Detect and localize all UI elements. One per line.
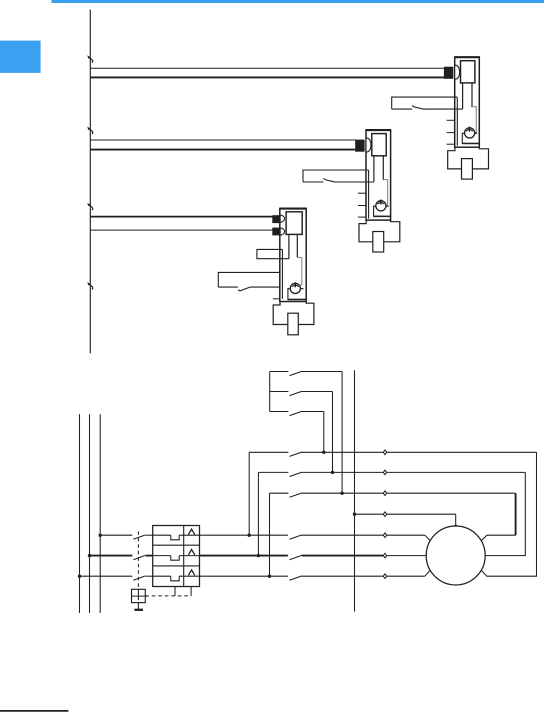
Q1 fuse link channel	[462, 83, 464, 109]
contactor K2 contact 2	[270, 391, 289, 393]
connector diamond row7	[383, 574, 386, 579]
busbar L1 bottom edge wire (heavy)	[90, 76, 445, 78]
Q1 size ticks	[447, 119, 455, 121]
main switch Q0 pole 1	[133, 535, 145, 539]
wire loop row3 to motor V2 (heavy drop)	[515, 493, 517, 535]
tap marker T3 on riser	[88, 204, 93, 208]
Q1 plug-in contact bump	[455, 65, 460, 79]
overload relay F1 divider	[183, 526, 185, 587]
connector diamond row1	[383, 450, 386, 455]
Q1 mounting tab	[462, 159, 473, 180]
Q2 inner side line	[368, 170, 370, 219]
Q2 pocket around handle	[374, 206, 391, 216]
junction feeder V	[88, 554, 91, 557]
junction feeder W	[78, 575, 81, 578]
wire row3 to loop	[302, 492, 516, 494]
wire overload to contactor V	[200, 555, 288, 557]
Q1 fuse link (gray)	[472, 107, 476, 133]
Q1 handle circle	[465, 128, 475, 138]
wire row4 down to motor	[455, 514, 457, 526]
wire K2-3 down	[323, 412, 325, 453]
Q3 mounting tab	[288, 313, 299, 335]
Q2 arm switch lever	[323, 178, 335, 182]
Q3 size tick	[273, 298, 280, 300]
connector diamond row3	[383, 491, 386, 496]
overload heater F1-3	[153, 575, 171, 577]
tap marker T2 on riser	[88, 128, 93, 132]
Q3 fuse link channel	[288, 234, 290, 258]
contactor K1 contact 1	[290, 535, 303, 539]
feeder wire L3 vertical	[99, 414, 101, 613]
junction delta V	[257, 554, 260, 557]
fuse-switch-disconnector Q3	[218, 209, 314, 335]
shunt release F2 box	[132, 589, 146, 602]
wire row5 to motor U1	[302, 534, 425, 536]
Q1 inner side line	[456, 97, 458, 146]
wire delta link V	[257, 472, 259, 555]
Q3 upper bracket	[257, 249, 289, 258]
busbar L2 bottom edge wire (heavy)	[90, 149, 356, 151]
overload trip chevron 3	[188, 570, 194, 575]
Q2 mounting tab	[373, 232, 384, 253]
Q2 fuse carrier	[372, 134, 386, 156]
Q3 arm switch lever	[238, 287, 250, 291]
junction delta U	[248, 534, 251, 537]
connector diamond row4	[383, 512, 386, 517]
connector diamond row5	[383, 533, 386, 538]
Q1 terminal lug	[444, 67, 452, 78]
main switch Q0 pole 2	[133, 555, 145, 559]
contactor K1 contact 2	[290, 555, 303, 559]
Q3 body outline	[280, 209, 306, 302]
connector diamond row6	[383, 553, 386, 558]
junction K2-3	[322, 451, 325, 454]
overload relay F1 housing	[153, 526, 200, 587]
wire delta link U	[248, 452, 250, 535]
overload trip chevron 2	[188, 550, 194, 555]
Q3 operating arm	[218, 272, 280, 287]
Q2 fuse link (gray)	[383, 180, 387, 206]
wire feeder to switch W	[80, 575, 133, 577]
motor M	[426, 526, 485, 585]
contactor K3 contact 2	[258, 471, 288, 473]
contactor K2 contact 1	[270, 371, 289, 373]
busbar riser wire	[89, 10, 91, 354]
wire switch to overload U	[146, 534, 153, 536]
wire K2-1 down	[341, 372, 343, 494]
Q2 plug-in contact bump	[366, 138, 371, 152]
contactor K3 contact 3	[270, 492, 289, 494]
wire overload to contactor W	[200, 575, 288, 577]
star contactor K2 common bus	[269, 372, 271, 412]
Q3 inner side line	[281, 249, 283, 298]
release lead	[137, 603, 139, 609]
contactor K2 contact 3	[270, 411, 289, 413]
chapter tab square (blue)	[0, 41, 41, 73]
wire loop row1 to motor W2	[481, 452, 536, 576]
wire feeder to switch V	[90, 555, 133, 557]
Q3 terminal lug upper	[273, 216, 280, 223]
wire overload to contactor U	[200, 534, 288, 536]
Q3 pedestal base	[273, 302, 314, 325]
page footer rule	[0, 710, 68, 712]
Q3 plug-in contact bumps	[280, 215, 285, 222]
junction motor top	[454, 525, 457, 528]
wire row2 to loop	[302, 471, 525, 473]
overload trip chevron 1	[188, 529, 194, 534]
busbar L2 top edge wire	[90, 139, 356, 141]
junction K2-1	[340, 492, 343, 495]
wire row7 to motor W1	[302, 575, 425, 577]
fuse-switch-disconnector Q1	[392, 57, 489, 179]
Q3 handle circle	[290, 283, 300, 293]
Q3 fuse carrier	[286, 212, 302, 235]
junction row4 / star wire	[353, 513, 356, 516]
wire row1 to loop	[302, 451, 537, 453]
busbar L3 feed wire A (heavy)	[90, 216, 273, 218]
tap marker T1 on riser	[88, 57, 93, 61]
wire switch to overload W	[146, 575, 153, 577]
junction feeder U	[99, 534, 102, 537]
wire loop row2 to motor U2	[485, 472, 525, 555]
Q3 pocket around handle	[288, 289, 306, 300]
Q2 size ticks	[358, 192, 366, 194]
contactor K3 contact 1	[249, 451, 288, 453]
feeder wire L1 vertical	[79, 414, 81, 613]
Q2 handle circle	[376, 201, 386, 211]
wire delta link W	[269, 493, 271, 576]
Q2 body outline	[366, 130, 391, 220]
junction delta W	[268, 575, 271, 578]
Q1 pedestal base	[448, 147, 489, 169]
overload trip linkage stubs	[174, 587, 176, 596]
wire row6 to motor V1	[302, 555, 383, 557]
feeder wire L2 vertical	[89, 414, 91, 613]
Q2 operating arm	[303, 170, 369, 182]
earth bar	[134, 609, 143, 611]
overload heater F1-2	[153, 555, 171, 557]
tap marker T4 on riser	[88, 283, 93, 287]
Q3 terminal lug lower	[273, 228, 280, 235]
wire row4 (motor star point)	[355, 513, 456, 515]
contactor K1 contact 3	[290, 576, 303, 580]
page header rule (blue)	[52, 0, 544, 3]
trip linkage (dashed)	[145, 595, 191, 597]
star point wire (vertical)	[354, 370, 356, 611]
busbar L1 top edge wire	[90, 67, 445, 69]
busbar L3 feed wire B	[90, 229, 273, 231]
Q1 body outline	[455, 57, 480, 147]
Q2 terminal lug	[356, 140, 364, 151]
Q1 arm switch lever	[412, 106, 424, 110]
Q1 pocket around handle	[462, 133, 479, 143]
Q2 fuse link channel	[373, 156, 375, 182]
wire feeder to switch U	[100, 534, 132, 536]
Q1 fuse carrier	[461, 61, 475, 83]
Q1 operating arm	[392, 97, 458, 109]
main switch Q0 pole 3	[133, 576, 145, 580]
overload heater F1-1	[153, 534, 171, 536]
Q2 pedestal base	[359, 220, 400, 242]
wire K2-2 down	[332, 392, 334, 473]
junction K2-2	[331, 471, 334, 474]
wire switch to overload V	[146, 555, 153, 557]
switch linkage (dashed)	[137, 531, 139, 589]
Q3 fuse link (gray)	[297, 258, 302, 285]
connector diamond row2	[383, 470, 386, 475]
fuse-switch-disconnector Q2	[303, 130, 400, 252]
